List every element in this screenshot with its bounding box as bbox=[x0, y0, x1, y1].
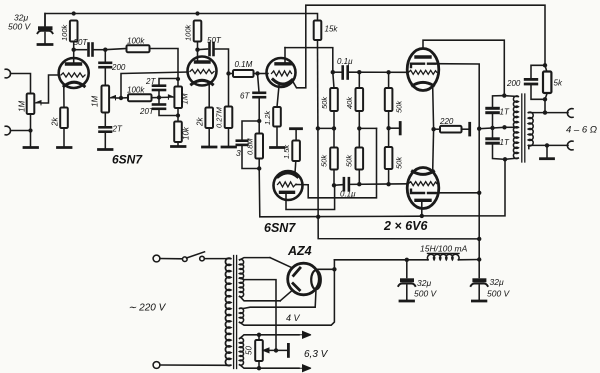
capacitor 50T coupling 2 bbox=[210, 43, 214, 55]
node secondary bottom bbox=[545, 143, 549, 147]
svg-text:2k: 2k bbox=[196, 117, 205, 127]
wire filament top to B+ bbox=[316, 269, 334, 270]
node OPT top bbox=[502, 93, 506, 97]
wire B+ rail top bbox=[45, 14, 318, 26]
ground 1.2k bbox=[271, 146, 285, 149]
svg-text:6SN7: 6SN7 bbox=[264, 221, 296, 235]
svg-text:∼ 220 V: ∼ 220 V bbox=[128, 303, 167, 314]
svg-text:4 – 6 Ω: 4 – 6 Ω bbox=[566, 125, 597, 136]
capacitor 0.1u lower bbox=[334, 178, 408, 190]
resistor 220 cathode bias bbox=[434, 126, 469, 133]
ground stub col3 bbox=[389, 123, 401, 134]
capacitor 6T bbox=[254, 74, 266, 122]
wire wiper junction up to grid line bbox=[121, 72, 188, 98]
svg-text:2k: 2k bbox=[51, 117, 60, 127]
svg-text:3: 3 bbox=[236, 148, 241, 158]
capacitor 32u/500V second bbox=[471, 260, 488, 301]
capacitor 200 feedback bbox=[525, 65, 545, 99]
svg-text:50T: 50T bbox=[74, 38, 89, 47]
wire 100k to plate node bbox=[73, 42, 75, 50]
node ct-1T bbox=[490, 126, 494, 130]
wire J2 to pot bottom bbox=[11, 130, 31, 132]
node screen rail lower bbox=[477, 191, 481, 195]
node V4 plate junction bbox=[420, 214, 424, 218]
node 32u first bbox=[405, 258, 409, 262]
svg-text:10k: 10k bbox=[182, 126, 191, 140]
opt core bbox=[522, 94, 525, 162]
svg-text:0.1μ: 0.1μ bbox=[340, 190, 356, 199]
node 6T bottom bbox=[257, 119, 261, 123]
tube V2b 6SN7 inverter bbox=[274, 171, 303, 200]
wire P2 bottom to 10k bbox=[177, 108, 179, 122]
svg-text:1M: 1M bbox=[91, 96, 100, 107]
svg-text:50k: 50k bbox=[320, 154, 329, 167]
node plate V1b bbox=[195, 48, 199, 52]
resistor 50k col1 bottom bbox=[330, 128, 338, 185]
wire switch to primary bbox=[204, 258, 227, 260]
svg-text:2 × 6V6: 2 × 6V6 bbox=[383, 219, 428, 233]
svg-text:15H/100 mA: 15H/100 mA bbox=[420, 244, 468, 254]
wire J1 to pot bbox=[11, 74, 31, 94]
svg-text:50k: 50k bbox=[320, 96, 329, 109]
node 0.8M bottom bbox=[257, 166, 261, 170]
wire B+ dropper vertical x318 bbox=[317, 48, 319, 129]
arrow 6.3V top bbox=[299, 331, 311, 338]
power transformer 4V winding bbox=[240, 308, 244, 323]
node col2 top bbox=[357, 70, 361, 74]
svg-text:6SN7: 6SN7 bbox=[112, 153, 143, 167]
power transformer primary bbox=[225, 258, 230, 366]
wire 5k to secondary bbox=[544, 99, 546, 112]
node P2 top feed bbox=[176, 77, 180, 81]
wire 10k to ground bbox=[177, 142, 179, 146]
node col3 top bbox=[386, 70, 390, 74]
svg-text:2T: 2T bbox=[145, 77, 156, 86]
choke 15H/100mA bbox=[407, 253, 479, 259]
wire node A down bbox=[104, 50, 106, 62]
wire HV center tap bbox=[240, 278, 276, 350]
wire feedback top line bbox=[306, 5, 545, 65]
resistor 0.1M grid stopper bbox=[229, 70, 258, 77]
resistor 0.27M bbox=[225, 107, 233, 129]
svg-text:32μ: 32μ bbox=[490, 277, 504, 287]
wire 1.5k up to bar bbox=[295, 130, 297, 141]
resistor 0.8M bbox=[255, 121, 263, 169]
wire 6.3V bottom bbox=[240, 365, 299, 368]
potentiometer 1M tone chain bbox=[102, 86, 122, 113]
speaker terminal upper bbox=[567, 109, 573, 118]
wire secondary bottom ground bbox=[546, 145, 548, 158]
svg-text:220: 220 bbox=[439, 117, 454, 126]
wire V4 cathode up bbox=[432, 129, 435, 170]
wire junction to 100k bass bbox=[121, 97, 128, 99]
speaker terminal lower bbox=[567, 141, 573, 150]
wire 0.27M ground bbox=[228, 128, 230, 147]
svg-text:50k: 50k bbox=[395, 100, 404, 113]
ground bar humdinger bbox=[287, 344, 290, 356]
svg-text:500 V: 500 V bbox=[414, 289, 438, 299]
svg-text:50T: 50T bbox=[207, 36, 222, 45]
svg-text:40k: 40k bbox=[345, 96, 354, 109]
resistor 50k col1 top bbox=[330, 72, 338, 128]
wire filament bottom to 4V top bbox=[240, 289, 316, 308]
svg-text:1M: 1M bbox=[18, 101, 27, 112]
wire ct to screen rail bbox=[479, 127, 504, 128]
ground 32u bbox=[38, 43, 52, 46]
svg-text:50k: 50k bbox=[345, 154, 354, 167]
wire junction to P2 wiper arrow bbox=[159, 96, 169, 98]
wire plate node to 50T2 bbox=[198, 48, 208, 51]
potentiometer 50 humdinger bbox=[255, 335, 287, 368]
wire V2b grid to divider tap bbox=[297, 128, 377, 197]
node B+ y238 junction bbox=[477, 237, 481, 241]
mains terminal lower bbox=[153, 362, 160, 369]
resistor 100k plate load V1b bbox=[194, 21, 202, 42]
wire primary ends bbox=[227, 259, 230, 366]
node OPT bottom bbox=[503, 157, 507, 161]
node filament-4V riser bbox=[332, 267, 336, 271]
ground 0.27M bbox=[222, 146, 236, 149]
wire 200 to P2 bbox=[104, 68, 106, 86]
resistor 100k plate load V1a bbox=[70, 21, 78, 42]
node y217-x318 bbox=[316, 215, 320, 219]
svg-text:2T: 2T bbox=[112, 125, 123, 134]
node V2a grid bbox=[255, 71, 259, 75]
wire HV bottom diag to plate2 bbox=[280, 291, 292, 301]
wire node down to 0.27M bbox=[228, 74, 230, 107]
node col2 bottom bbox=[357, 182, 361, 186]
svg-text:AZ4: AZ4 bbox=[287, 244, 312, 258]
output transformer secondary bbox=[528, 112, 568, 148]
svg-text:0.1M: 0.1M bbox=[235, 60, 253, 69]
wire V4 screen to rail bbox=[437, 192, 480, 194]
wire plate node to 50T bbox=[74, 49, 87, 51]
ground bar 1.5k bbox=[291, 127, 302, 130]
ground 32u first bbox=[400, 300, 414, 303]
resistor 50k col3 top bbox=[385, 72, 393, 128]
node 0.1M left bbox=[226, 71, 230, 75]
tube V1a 6SN7 first triode bbox=[59, 50, 89, 88]
wire V1b cathode to 2k bbox=[208, 85, 210, 108]
wire V3 cathode down bbox=[432, 87, 435, 129]
resistor 100k bass horizontal bbox=[128, 94, 152, 101]
node col1 bottom bbox=[332, 183, 336, 187]
switch S1 bbox=[183, 252, 205, 262]
node OPT ct bbox=[502, 125, 506, 129]
svg-text:1T: 1T bbox=[500, 138, 510, 147]
wire 1.2k ground bbox=[276, 127, 278, 147]
node col2 mid bbox=[357, 126, 361, 130]
svg-text:1M: 1M bbox=[181, 93, 190, 104]
svg-text:4 V: 4 V bbox=[286, 313, 301, 323]
tube V4 6V6 lower bbox=[407, 168, 439, 209]
node ct-rail bbox=[477, 127, 481, 131]
tube V2a 6SN7 driver bbox=[267, 48, 296, 87]
node humdinger wiper-ct bbox=[274, 348, 278, 352]
svg-text:200: 200 bbox=[506, 79, 521, 88]
mains terminal upper bbox=[153, 255, 160, 262]
ground chain bbox=[99, 148, 113, 151]
node P2 bottom bbox=[176, 113, 180, 117]
wire 100k V1b to plate node bbox=[197, 42, 199, 50]
wire 2T to ground bbox=[104, 132, 106, 149]
capacitor 1T upper bbox=[487, 96, 505, 128]
node col3 bottom bbox=[386, 182, 390, 186]
svg-text:32μ: 32μ bbox=[417, 278, 431, 288]
wire HV top diag to plate1 bbox=[270, 258, 292, 268]
svg-text:500 V: 500 V bbox=[8, 22, 32, 32]
svg-text:500 V: 500 V bbox=[487, 289, 511, 299]
svg-text:100k: 100k bbox=[127, 37, 145, 46]
wire pot to 2T bbox=[104, 113, 106, 127]
potentiometer 1M tone P2 bbox=[168, 87, 182, 109]
node humdinger top bbox=[257, 333, 261, 337]
resistor 2k cathode V1b bbox=[205, 108, 213, 129]
input jack J2 bbox=[5, 126, 10, 135]
ground 32u second bbox=[472, 300, 486, 303]
input jack J1 bbox=[5, 69, 10, 78]
node cathodes bbox=[431, 127, 435, 131]
ground bar 220 bbox=[468, 123, 471, 135]
wire 0.8M bottom to lower plate line bbox=[259, 169, 422, 217]
resistor 50k col3 bottom bbox=[385, 128, 393, 184]
wire x318 to col1 mid bbox=[318, 127, 334, 129]
node col3 mid bbox=[386, 126, 390, 130]
wire V4 plate to OPT bottom bbox=[422, 159, 505, 216]
svg-text:15k: 15k bbox=[325, 25, 339, 34]
capacitor 3pF parallel bbox=[237, 121, 259, 169]
wire 2k to ground bbox=[63, 128, 65, 147]
node wiper junction bbox=[119, 96, 123, 100]
rectifier AZ4 bbox=[288, 263, 321, 295]
wire V1a cathode to 2k bbox=[63, 87, 65, 108]
resistor 40k col2 top bbox=[356, 72, 364, 128]
svg-text:100k: 100k bbox=[184, 23, 193, 41]
capacitor 1T lower bbox=[487, 128, 505, 159]
resistor 1.2k bbox=[273, 107, 281, 127]
wire feedback to V2a cathode bbox=[292, 48, 306, 88]
node humdinger bottom bbox=[257, 366, 261, 370]
capacitor 50T coupling 1 bbox=[89, 44, 93, 56]
wire pot bottom to ground bbox=[30, 114, 32, 147]
svg-text:200: 200 bbox=[111, 63, 126, 72]
node col1 mid bbox=[332, 126, 336, 130]
ground 10k bbox=[172, 145, 186, 148]
wire V3 screen to rail bbox=[436, 64, 480, 260]
node x318 divider row bbox=[316, 126, 320, 130]
output transformer primary bbox=[504, 96, 518, 160]
node col1 top bbox=[331, 70, 335, 74]
capacitor 32u/500V input filter bbox=[38, 14, 53, 44]
wire V2a plate line bbox=[285, 48, 333, 73]
capacitor 2T chain bbox=[100, 127, 112, 131]
node 5k bottom bbox=[543, 97, 547, 101]
capacitor 32u/500V first bbox=[398, 260, 415, 300]
ground 2k V1b bbox=[203, 146, 217, 149]
wire 100k bass to cap node bbox=[152, 97, 160, 99]
power transformer HV winding bbox=[240, 258, 281, 301]
wire x318 down to screen rail bbox=[318, 128, 479, 239]
potentiometer P1 1M volume bbox=[27, 75, 59, 114]
wire 4V bottom to riser bbox=[240, 260, 335, 325]
resistor 50k col2 bottom bbox=[356, 128, 364, 184]
power transformer core bbox=[234, 256, 237, 369]
wire grid node to tube3 bbox=[258, 73, 269, 75]
node feedback top bbox=[543, 63, 547, 67]
wire V2b plate down right bbox=[286, 185, 335, 209]
svg-text:1T: 1T bbox=[500, 108, 510, 117]
node 2T/20T junction bbox=[157, 95, 161, 99]
wire V2a cathode to 1.2k bbox=[277, 86, 279, 108]
wire mains upper bbox=[160, 258, 182, 260]
wire V3 plate to OPT top bbox=[423, 40, 504, 95]
ground 2k V1a bbox=[58, 146, 72, 149]
svg-text:1.5k: 1.5k bbox=[282, 144, 291, 159]
wire mains lower bbox=[160, 364, 227, 366]
node B+ rail junction bbox=[477, 257, 481, 261]
capacitor 2T treble bbox=[153, 79, 178, 98]
svg-text:6,3 V: 6,3 V bbox=[304, 349, 329, 360]
svg-text:100k: 100k bbox=[127, 86, 145, 95]
wire 50T to node A bbox=[93, 49, 106, 51]
wire B+ line from riser bbox=[334, 259, 406, 261]
svg-text:1.2k: 1.2k bbox=[263, 110, 272, 125]
wire col2 mid to riser bbox=[359, 127, 376, 129]
wire 6.3V top bbox=[240, 335, 299, 339]
power transformer 6.3V winding bbox=[240, 338, 244, 365]
capacitor 200 bbox=[100, 63, 112, 67]
wire 50T2 to grid node bbox=[214, 49, 229, 74]
wire V2b cathode to 1.5k bbox=[294, 161, 297, 173]
svg-text:0.27M: 0.27M bbox=[215, 106, 224, 128]
node rail-100k1 bbox=[72, 11, 76, 15]
ground secondary bbox=[541, 157, 554, 160]
svg-text:6T: 6T bbox=[240, 92, 250, 101]
svg-text:50: 50 bbox=[245, 346, 254, 355]
arrow 6.3V bottom bbox=[299, 365, 311, 372]
node A bbox=[103, 48, 107, 52]
node plate V1a bbox=[72, 48, 76, 52]
resistor 10k bbox=[174, 122, 182, 143]
resistor 100k treble horizontal bbox=[105, 45, 178, 85]
resistor 5k feedback bbox=[543, 65, 551, 99]
node secondary top bbox=[543, 110, 547, 114]
tube V1b 6SN7 second triode bbox=[188, 50, 217, 86]
resistor 15k decoupling bbox=[314, 21, 322, 48]
node rail-100k2 bbox=[195, 11, 199, 15]
svg-text:5k: 5k bbox=[554, 79, 563, 88]
resistor 2k cathode V1a bbox=[60, 108, 68, 129]
capacitor 20T bass bbox=[153, 98, 178, 116]
resistor 1.5k bbox=[292, 141, 300, 162]
svg-text:100k: 100k bbox=[60, 23, 69, 41]
capacitor 0.1u upper bbox=[333, 67, 408, 79]
tube V3 6V6 upper bbox=[407, 49, 439, 91]
svg-text:50k: 50k bbox=[395, 156, 404, 169]
node P1-J2 bbox=[28, 128, 32, 132]
svg-text:20T: 20T bbox=[139, 107, 155, 116]
wire 2k V1b ground bbox=[208, 128, 210, 147]
svg-text:0.1μ: 0.1μ bbox=[337, 57, 353, 66]
ground P1 bbox=[24, 146, 38, 149]
